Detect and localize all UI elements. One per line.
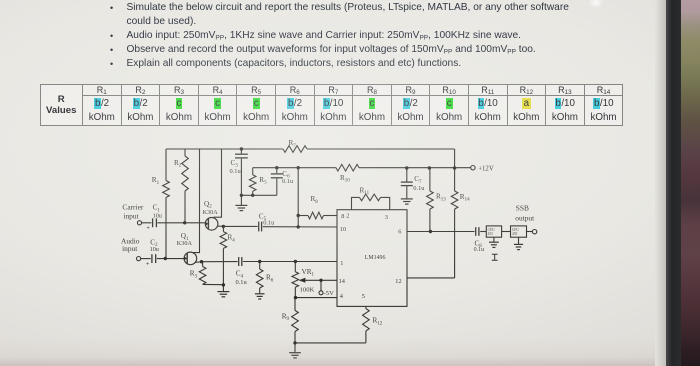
svg-text:0.1u: 0.1u — [230, 168, 242, 175]
svg-text:R10: R10 — [340, 174, 350, 184]
svg-text:R8: R8 — [311, 195, 319, 205]
svg-text:R14: R14 — [460, 193, 470, 203]
svg-text:input: input — [122, 244, 138, 253]
svg-text:C4: C4 — [236, 270, 244, 280]
svg-text:VR1: VR1 — [302, 268, 315, 278]
svg-text:R1: R1 — [152, 176, 160, 186]
svg-text:6: 6 — [398, 229, 401, 236]
svg-text:output: output — [515, 214, 535, 223]
svg-text:455: 455 — [512, 232, 518, 236]
svg-text:R6: R6 — [266, 274, 274, 284]
svg-text:input: input — [123, 212, 139, 221]
svg-text:8: 8 — [341, 213, 344, 220]
svg-text:Carrier: Carrier — [122, 203, 143, 212]
svg-text:C3: C3 — [231, 159, 239, 169]
svg-text:5: 5 — [362, 293, 365, 300]
svg-text:R5: R5 — [259, 176, 267, 186]
svg-text:3: 3 — [385, 214, 388, 221]
svg-text:12: 12 — [395, 278, 401, 285]
svg-text:2: 2 — [346, 213, 349, 220]
svg-text:K30A: K30A — [177, 240, 193, 247]
svg-text:CFU: CFU — [488, 228, 495, 232]
svg-text:455: 455 — [488, 232, 494, 236]
svg-text:R3: R3 — [190, 270, 198, 280]
svg-text:SSB: SSB — [516, 204, 529, 213]
svg-text:0.1u: 0.1u — [413, 185, 425, 192]
svg-text:R2: R2 — [174, 159, 182, 169]
svg-text:14: 14 — [339, 278, 346, 285]
svg-text:+: + — [147, 226, 150, 232]
svg-text:10u: 10u — [150, 246, 159, 253]
svg-text:4: 4 — [340, 293, 344, 300]
svg-text:C7: C7 — [414, 175, 422, 185]
svg-text:+: + — [146, 261, 149, 267]
svg-text:K30A: K30A — [203, 209, 219, 216]
svg-text:R4: R4 — [228, 234, 236, 244]
svg-text:100K: 100K — [300, 287, 315, 294]
svg-text:0.1u: 0.1u — [474, 247, 485, 253]
svg-text:R12: R12 — [373, 317, 383, 327]
svg-text:R13: R13 — [436, 193, 446, 203]
svg-text:R9: R9 — [282, 313, 290, 323]
svg-text:LM1496: LM1496 — [365, 255, 386, 261]
svg-text:0.1u: 0.1u — [263, 220, 275, 227]
svg-text:R11: R11 — [360, 186, 370, 196]
svg-text:1: 1 — [340, 260, 343, 267]
svg-text:-5V: -5V — [324, 290, 334, 297]
svg-text:CFU: CFU — [512, 228, 519, 232]
svg-text:0.1u: 0.1u — [236, 279, 248, 286]
svg-text:10u: 10u — [153, 213, 162, 220]
svg-text:+12V: +12V — [478, 165, 494, 172]
svg-text:0.1u: 0.1u — [282, 178, 294, 185]
svg-text:10: 10 — [340, 226, 346, 233]
